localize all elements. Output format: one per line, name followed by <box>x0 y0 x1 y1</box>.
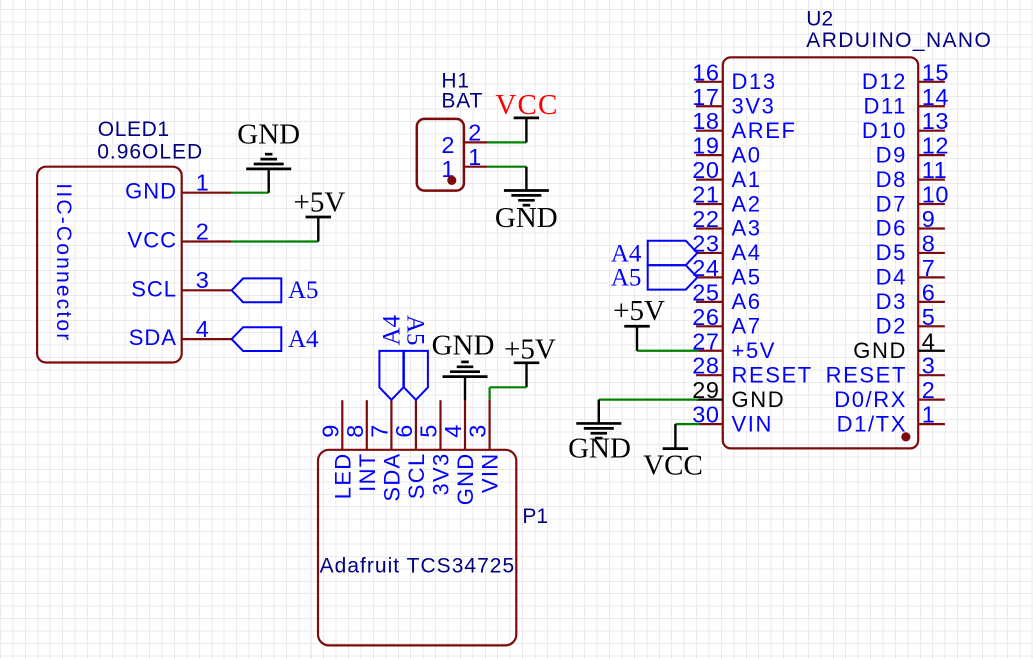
svg-text:7: 7 <box>367 425 393 438</box>
svg-text:A4: A4 <box>288 326 319 353</box>
svg-text:INT: INT <box>355 453 380 492</box>
svg-text:2: 2 <box>441 132 454 158</box>
svg-text:SCL: SCL <box>131 276 177 301</box>
svg-text:17: 17 <box>692 84 719 110</box>
svg-text:25: 25 <box>692 279 719 305</box>
svg-text:19: 19 <box>692 133 719 159</box>
svg-text:3: 3 <box>465 425 491 438</box>
svg-text:9: 9 <box>317 425 343 438</box>
svg-text:4: 4 <box>922 328 936 354</box>
svg-text:GND: GND <box>237 119 300 151</box>
svg-text:28: 28 <box>692 353 719 379</box>
svg-text:3V3: 3V3 <box>732 93 776 118</box>
svg-text:RESET: RESET <box>732 362 813 387</box>
svg-text:14: 14 <box>922 84 949 110</box>
svg-text:2: 2 <box>922 377 936 403</box>
svg-text:VIN: VIN <box>732 411 773 436</box>
svg-text:5: 5 <box>922 304 936 330</box>
svg-text:10: 10 <box>922 182 949 208</box>
svg-text:21: 21 <box>692 182 719 208</box>
svg-text:GND: GND <box>732 387 786 412</box>
svg-text:D10: D10 <box>862 118 907 143</box>
svg-text:16: 16 <box>692 59 719 85</box>
svg-text:SCL: SCL <box>404 453 429 500</box>
svg-text:GND: GND <box>125 179 177 204</box>
svg-text:1: 1 <box>468 144 481 170</box>
svg-text:+5V: +5V <box>504 334 556 366</box>
svg-text:D6: D6 <box>876 216 907 241</box>
svg-text:9: 9 <box>922 206 936 232</box>
svg-text:ARDUINO_NANO: ARDUINO_NANO <box>806 29 991 52</box>
svg-text:P1: P1 <box>522 505 548 528</box>
svg-text:22: 22 <box>692 206 719 232</box>
svg-text:4: 4 <box>196 316 209 342</box>
svg-text:RESET: RESET <box>826 362 907 387</box>
svg-text:A6: A6 <box>732 289 762 314</box>
svg-text:D3: D3 <box>876 289 907 314</box>
svg-text:12: 12 <box>922 133 949 159</box>
svg-text:D2: D2 <box>876 314 907 339</box>
svg-text:GND: GND <box>495 202 558 234</box>
svg-text:LED: LED <box>330 453 355 500</box>
svg-text:18: 18 <box>692 108 719 134</box>
svg-text:BAT: BAT <box>441 89 483 112</box>
svg-text:VCC: VCC <box>643 450 703 482</box>
svg-text:A2: A2 <box>732 191 762 216</box>
svg-text:A0: A0 <box>732 142 762 167</box>
svg-text:D5: D5 <box>876 240 907 265</box>
svg-text:26: 26 <box>692 304 719 330</box>
svg-text:D0/RX: D0/RX <box>834 387 907 412</box>
svg-text:2: 2 <box>196 218 209 244</box>
svg-text:A4: A4 <box>611 240 642 267</box>
svg-text:VIN: VIN <box>478 453 503 494</box>
svg-text:D9: D9 <box>876 142 907 167</box>
svg-text:IIC-Connector: IIC-Connector <box>52 183 75 340</box>
svg-text:OLED1: OLED1 <box>98 118 170 141</box>
svg-text:+5V: +5V <box>293 187 345 219</box>
svg-text:A5: A5 <box>611 265 642 292</box>
svg-text:20: 20 <box>692 157 719 183</box>
svg-text:D4: D4 <box>876 265 907 290</box>
svg-text:3: 3 <box>922 353 936 379</box>
svg-text:5: 5 <box>416 425 442 438</box>
svg-text:+5V: +5V <box>613 295 665 327</box>
svg-text:D7: D7 <box>876 191 907 216</box>
svg-text:GND: GND <box>568 433 631 465</box>
svg-text:A7: A7 <box>732 314 762 339</box>
svg-text:A1: A1 <box>732 167 762 192</box>
svg-text:0.96OLED: 0.96OLED <box>97 140 202 163</box>
svg-text:A5: A5 <box>402 315 429 346</box>
svg-text:7: 7 <box>922 255 936 281</box>
svg-text:A5: A5 <box>732 265 762 290</box>
svg-text:8: 8 <box>922 230 936 256</box>
svg-text:VCC: VCC <box>495 89 558 121</box>
svg-text:SDA: SDA <box>129 325 177 350</box>
svg-text:GND: GND <box>853 338 907 363</box>
svg-text:D13: D13 <box>732 69 777 94</box>
svg-text:D11: D11 <box>863 93 907 118</box>
svg-text:8: 8 <box>342 425 368 438</box>
svg-text:+5V: +5V <box>732 338 777 363</box>
svg-text:D12: D12 <box>862 69 907 94</box>
svg-text:15: 15 <box>922 59 949 85</box>
svg-text:AREF: AREF <box>732 118 797 143</box>
svg-text:3V3: 3V3 <box>429 453 454 496</box>
svg-text:4: 4 <box>440 425 466 438</box>
svg-text:6: 6 <box>391 425 417 438</box>
svg-text:SDA: SDA <box>379 453 404 502</box>
svg-text:2: 2 <box>468 120 481 146</box>
svg-text:A5: A5 <box>288 277 319 304</box>
svg-text:1: 1 <box>922 402 936 428</box>
svg-text:1: 1 <box>196 170 209 196</box>
svg-text:13: 13 <box>922 108 949 134</box>
svg-text:U2: U2 <box>806 8 833 31</box>
svg-text:A3: A3 <box>732 216 762 241</box>
svg-text:A4: A4 <box>732 240 762 265</box>
svg-text:6: 6 <box>922 279 936 305</box>
svg-text:Adafruit TCS34725: Adafruit TCS34725 <box>320 555 515 578</box>
svg-text:D1/TX: D1/TX <box>837 411 907 436</box>
svg-text:GND: GND <box>432 330 495 362</box>
svg-text:11: 11 <box>922 157 947 183</box>
svg-text:A4: A4 <box>379 314 406 345</box>
svg-text:3: 3 <box>196 267 209 293</box>
svg-text:VCC: VCC <box>128 228 177 253</box>
svg-text:D8: D8 <box>876 167 907 192</box>
svg-text:GND: GND <box>453 453 478 506</box>
